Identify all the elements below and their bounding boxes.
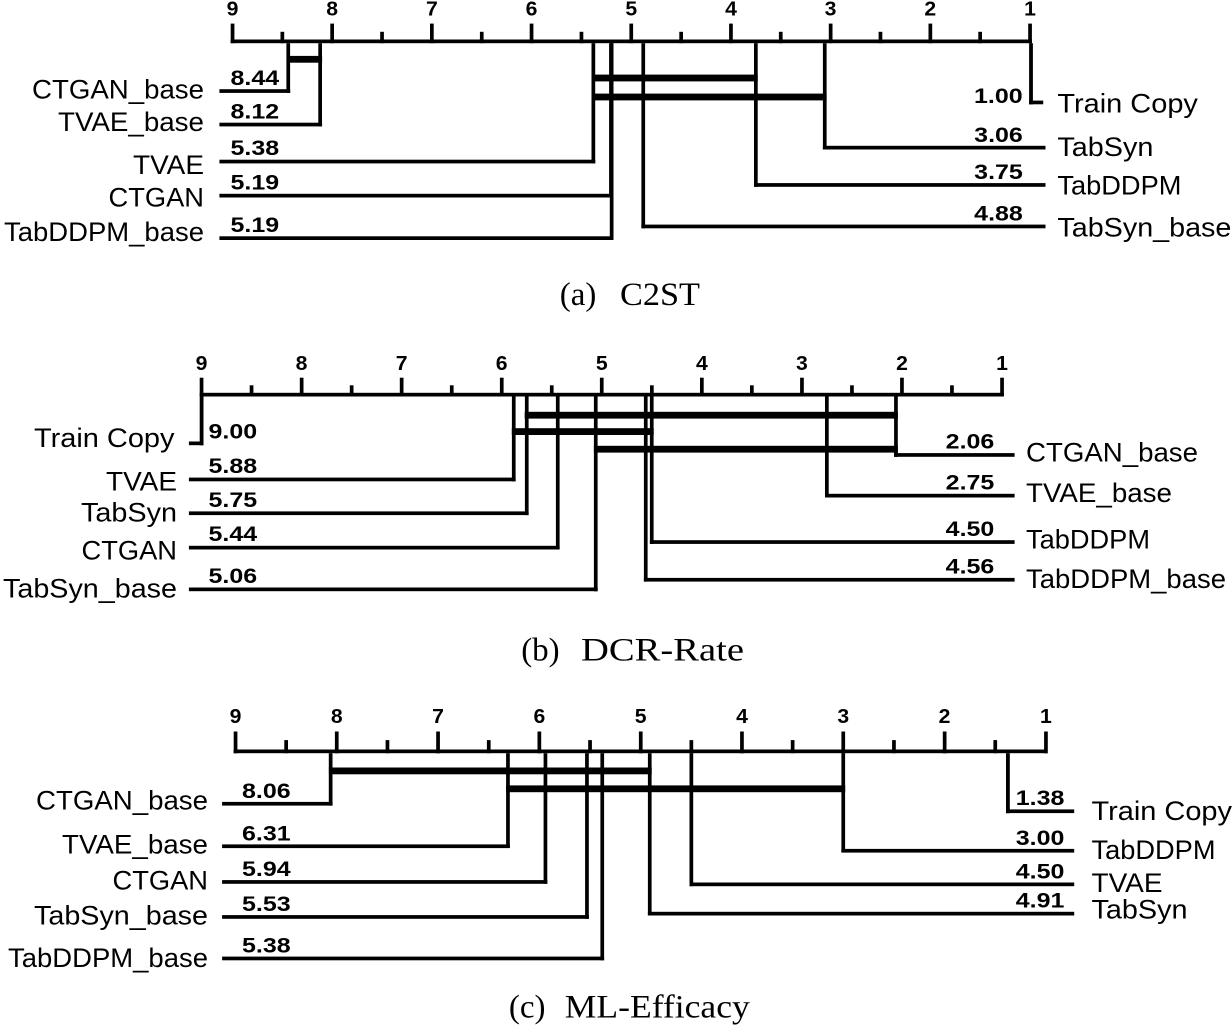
svg-text:5.53: 5.53 (242, 892, 291, 916)
svg-text:TabSyn: TabSyn (81, 498, 177, 528)
plot (c) axis major tick 7 (436, 732, 440, 754)
plot (a) axis minor tick 9.5 (281, 32, 285, 43)
plot (b) axis major tick 8 (300, 378, 304, 397)
plot (a) axis number 3 (825, 0, 837, 20)
svg-text:5.38: 5.38 (242, 934, 291, 958)
method CTGAN_base (b): rank 2.06, right row (894, 397, 1198, 468)
plot (c) axis minor tick 2.5 (993, 740, 997, 753)
plot (c) axis major tick 8 (335, 732, 339, 754)
plot (c) axis number 5 (635, 706, 647, 728)
svg-text:TVAE_base: TVAE_base (62, 830, 208, 860)
plot (a) axis number 9 (227, 0, 239, 20)
plot (a) axis major tick 9 (231, 24, 235, 44)
plot (c) axis major tick 2 (943, 732, 947, 754)
svg-text:Train Copy: Train Copy (34, 423, 175, 453)
method TabSyn (a): rank 3.06, right row (823, 43, 1154, 162)
svg-text:9: 9 (196, 353, 208, 375)
plot (c) caption (509, 990, 750, 1026)
plot (c) axis line (234, 750, 1048, 754)
plot (c) clique bar 2 (506, 785, 845, 792)
plot (b) axis minor tick 3.5 (850, 385, 854, 396)
plot (c) axis number 8 (331, 706, 343, 728)
plot (a) axis major tick 2 (929, 24, 933, 44)
svg-text:2.75: 2.75 (946, 470, 995, 494)
svg-text:5: 5 (625, 0, 637, 20)
plot (c) axis minor tick 9.5 (284, 740, 288, 753)
svg-text:(a): (a) (560, 277, 597, 313)
plot (a) axis minor tick 4.5 (779, 32, 783, 43)
svg-text:5: 5 (596, 353, 608, 375)
plot (c) axis major tick 6 (538, 732, 542, 754)
plot (a) axis number 7 (426, 0, 438, 20)
plot (c) axis minor tick 6.5 (588, 740, 592, 753)
plot (c) axis major tick 4 (740, 732, 744, 754)
svg-text:5.75: 5.75 (209, 488, 258, 512)
plot (b) axis number 8 (296, 353, 308, 375)
plot (b) axis minor tick 5.5 (650, 385, 654, 396)
method TabSyn_base (a): rank 4.88, right row (641, 43, 1231, 242)
plot (a) axis minor tick 2.5 (978, 32, 982, 43)
plot (b) axis major tick 9 (200, 378, 204, 397)
svg-text:TVAE: TVAE (133, 150, 204, 180)
svg-text:TabDDPM: TabDDPM (1057, 170, 1181, 200)
svg-text:TabSyn_base: TabSyn_base (1057, 213, 1231, 243)
svg-text:TVAE: TVAE (1092, 868, 1163, 898)
plot (b) axis number 6 (496, 353, 508, 375)
svg-text:TabSyn: TabSyn (1092, 895, 1188, 925)
plot (a) axis minor tick 3.5 (879, 32, 883, 43)
plot (b) axis number 1 (996, 353, 1008, 375)
svg-text:(b): (b) (521, 632, 559, 668)
method TabDDPM_base (b): rank 4.56, right row (644, 397, 1226, 595)
svg-text:TVAE_base: TVAE_base (1026, 478, 1172, 508)
method TabDDPM_base (a): rank 5.19, left row (4, 43, 614, 247)
svg-text:1: 1 (996, 353, 1008, 375)
svg-text:8: 8 (331, 706, 343, 728)
plot (c) axis minor tick 5.5 (690, 740, 694, 753)
plot (c) axis major tick 3 (841, 732, 845, 754)
svg-text:5.88: 5.88 (209, 454, 258, 478)
plot (a) axis major tick 7 (430, 24, 434, 44)
method Train Copy (a): rank 1.00, corner row (974, 43, 1198, 118)
svg-text:5.44: 5.44 (209, 522, 258, 546)
svg-text:4: 4 (736, 706, 749, 728)
svg-text:2: 2 (924, 0, 936, 20)
svg-text:3.06: 3.06 (974, 123, 1023, 147)
plot (b) axis number 2 (896, 353, 908, 375)
svg-text:3.75: 3.75 (974, 160, 1023, 184)
svg-text:4.50: 4.50 (946, 517, 995, 541)
svg-text:8.44: 8.44 (231, 66, 280, 90)
svg-text:Train Copy: Train Copy (1092, 796, 1232, 826)
plot (b) axis major tick 3 (800, 378, 804, 397)
plot (a) clique bar 1 (287, 56, 323, 63)
svg-text:5.06: 5.06 (209, 564, 258, 588)
method Train Copy (b): rank 9.00, corner row (34, 397, 257, 454)
plot (a) axis number 2 (924, 0, 936, 20)
svg-text:CTGAN_base: CTGAN_base (1026, 438, 1198, 468)
svg-text:8: 8 (326, 0, 338, 20)
plot (c) axis minor tick 7.5 (487, 740, 491, 753)
svg-text:CTGAN_base: CTGAN_base (32, 74, 204, 104)
plot (c) axis number 7 (432, 706, 444, 728)
svg-text:CTGAN: CTGAN (82, 536, 178, 566)
svg-text:TabDDPM: TabDDPM (1092, 835, 1216, 865)
plot (a) axis major tick 8 (330, 24, 334, 44)
plot (b) clique bar 2 (512, 428, 654, 435)
method TVAE (c): rank 4.50, right row (690, 753, 1163, 898)
svg-text:CTGAN_base: CTGAN_base (36, 786, 208, 816)
plot (b) axis number 4 (696, 353, 709, 375)
plot (a) caption (560, 277, 700, 313)
plot (b) axis major tick 1 (1000, 378, 1004, 397)
method Train Copy (c): rank 1.38, corner row (1006, 753, 1232, 826)
method TabSyn_base (b): rank 5.06, left row (3, 397, 598, 604)
svg-text:7: 7 (432, 706, 444, 728)
plot (a) axis major tick 1 (1028, 24, 1032, 44)
method TabSyn_base (c): rank 5.53, left row (34, 753, 589, 930)
plot (a) axis number 6 (526, 0, 538, 20)
plot (c) axis number 2 (939, 706, 951, 728)
svg-text:TabDDPM_base: TabDDPM_base (1026, 564, 1226, 594)
method CTGAN_base (c): rank 8.06, left row (36, 753, 333, 816)
svg-text:7: 7 (396, 353, 408, 375)
method CTGAN (a): rank 5.19, left row (109, 43, 613, 212)
plot (b) axis minor tick 8.5 (350, 385, 354, 396)
plot (a) axis major tick 4 (729, 24, 733, 44)
svg-text:5.19: 5.19 (231, 171, 280, 195)
plot (a) clique bar 3 (592, 94, 827, 101)
plot (c) axis number 1 (1040, 706, 1052, 728)
method CTGAN (b): rank 5.44, left row (82, 397, 560, 566)
svg-text:TabSyn_base: TabSyn_base (34, 900, 208, 930)
method CTGAN (c): rank 5.94, left row (113, 753, 548, 895)
svg-text:6.31: 6.31 (242, 821, 291, 845)
plot (b) axis major tick 7 (400, 378, 404, 397)
plot (a) axis major tick 6 (530, 24, 534, 44)
plot (b) axis number 5 (596, 353, 608, 375)
plot (b) axis minor tick 6.5 (550, 385, 554, 396)
plot (a) axis major tick 5 (629, 24, 633, 44)
svg-text:2.06: 2.06 (946, 430, 995, 454)
plot (b) caption (521, 632, 744, 668)
plot (c) axis major tick 5 (639, 732, 643, 754)
svg-text:DCR-Rate: DCR-Rate (581, 632, 744, 668)
method TVAE (b): rank 5.88, left row (106, 397, 516, 497)
svg-text:4.88: 4.88 (974, 202, 1023, 226)
plot (a) axis major tick 3 (829, 24, 833, 44)
svg-text:TabSyn_base: TabSyn_base (3, 573, 177, 603)
svg-text:2: 2 (939, 706, 951, 728)
plot (c) axis major tick 1 (1044, 732, 1048, 754)
svg-text:3.00: 3.00 (1016, 826, 1065, 850)
method TabDDPM (a): rank 3.75, right row (754, 43, 1181, 200)
svg-text:9: 9 (230, 706, 242, 728)
svg-text:3: 3 (825, 0, 837, 20)
method TVAE_base (c): rank 6.31, left row (62, 753, 510, 859)
plot (a) axis minor tick 6.5 (580, 32, 584, 43)
svg-text:3: 3 (796, 353, 808, 375)
plot (c) clique bar 1 (329, 768, 652, 775)
method TabSyn (c): rank 4.91, right row (648, 753, 1188, 924)
plot (b) axis number 7 (396, 353, 408, 375)
svg-text:4: 4 (725, 0, 738, 20)
method TabDDPM_base (c): rank 5.38, left row (8, 753, 604, 973)
plot (b) axis minor tick 4.5 (750, 385, 754, 396)
plot (b) axis minor tick 7.5 (450, 385, 454, 396)
plot (b) clique bar 1 (525, 412, 898, 419)
plot (b) axis number 9 (196, 353, 208, 375)
svg-text:(c): (c) (509, 990, 546, 1026)
svg-text:ML-Efficacy: ML-Efficacy (565, 990, 751, 1026)
plot (c) axis major tick 9 (234, 732, 238, 754)
plot (a) axis minor tick 5.5 (679, 32, 683, 43)
svg-text:CTGAN: CTGAN (109, 183, 205, 213)
plot (a) clique bar 2 (592, 75, 758, 82)
svg-text:C2ST: C2ST (620, 277, 700, 313)
plot (b) axis major tick 2 (900, 378, 904, 397)
svg-text:CTGAN: CTGAN (113, 865, 209, 895)
svg-text:TabSyn: TabSyn (1057, 132, 1153, 162)
svg-text:8.06: 8.06 (242, 779, 291, 803)
method TabSyn (b): rank 5.75, left row (81, 397, 529, 528)
method TVAE_base (a): rank 8.12, left row (58, 43, 322, 137)
svg-text:5.94: 5.94 (242, 857, 291, 881)
svg-text:Train Copy: Train Copy (1057, 88, 1198, 118)
svg-text:TabDDPM: TabDDPM (1026, 525, 1150, 555)
method CTGAN_base (a): rank 8.44, left row (32, 43, 290, 104)
svg-text:8.12: 8.12 (231, 99, 280, 123)
svg-text:8: 8 (296, 353, 308, 375)
method TabDDPM (b): rank 4.50, right row (650, 397, 1150, 555)
svg-text:2: 2 (896, 353, 908, 375)
plot (b) axis major tick 5 (600, 378, 604, 397)
method TVAE_base (b): rank 2.75, right row (825, 397, 1172, 509)
svg-text:4.91: 4.91 (1016, 889, 1065, 913)
plot (c) axis minor tick 8.5 (386, 740, 390, 753)
svg-text:4.50: 4.50 (1016, 859, 1065, 883)
svg-text:5.19: 5.19 (231, 213, 280, 237)
plot (a) axis line (231, 40, 1032, 44)
plot (c) axis minor tick 3.5 (892, 740, 896, 753)
svg-text:TabDDPM_base: TabDDPM_base (8, 943, 208, 973)
plot (a) axis minor tick 7.5 (480, 32, 484, 43)
plot (b) axis minor tick 2.5 (950, 385, 954, 396)
svg-text:4: 4 (696, 353, 709, 375)
svg-text:5.38: 5.38 (231, 136, 280, 160)
svg-text:6: 6 (496, 353, 508, 375)
svg-text:TabDDPM_base: TabDDPM_base (4, 217, 204, 247)
method TVAE (a): rank 5.38, left row (133, 43, 595, 180)
plot (b) axis minor tick 9.5 (250, 385, 254, 396)
plot (b) axis number 3 (796, 353, 808, 375)
plot (a) axis number 5 (625, 0, 637, 20)
svg-text:3: 3 (837, 706, 849, 728)
svg-text:6: 6 (526, 0, 538, 20)
plot (c) axis number 9 (230, 706, 242, 728)
plot (b) axis line (200, 393, 1004, 397)
svg-text:1.00: 1.00 (974, 84, 1023, 108)
method TabDDPM (c): rank 3.00, right row (841, 753, 1215, 865)
svg-text:TVAE: TVAE (106, 467, 177, 497)
plot (b) clique bar 3 (594, 446, 898, 453)
plot (c) axis number 3 (837, 706, 849, 728)
svg-text:TVAE_base: TVAE_base (58, 107, 204, 137)
plot (c) axis number 4 (736, 706, 749, 728)
plot (b) axis major tick 6 (500, 378, 504, 397)
svg-text:9.00: 9.00 (209, 420, 258, 444)
svg-text:9: 9 (227, 0, 239, 20)
svg-text:1.38: 1.38 (1016, 786, 1065, 810)
plot (c) axis minor tick 4.5 (791, 740, 795, 753)
plot (c) axis number 6 (534, 706, 546, 728)
plot (a) axis minor tick 8.5 (380, 32, 384, 43)
plot (a) axis number 1 (1024, 0, 1036, 20)
svg-text:4.56: 4.56 (946, 554, 995, 578)
plot (a) axis number 8 (326, 0, 338, 20)
svg-text:7: 7 (426, 0, 438, 20)
svg-text:1: 1 (1040, 706, 1052, 728)
plot (b) axis major tick 4 (700, 378, 704, 397)
plot (a) axis number 4 (725, 0, 738, 20)
svg-text:1: 1 (1024, 0, 1036, 20)
svg-text:5: 5 (635, 706, 647, 728)
svg-text:6: 6 (534, 706, 546, 728)
